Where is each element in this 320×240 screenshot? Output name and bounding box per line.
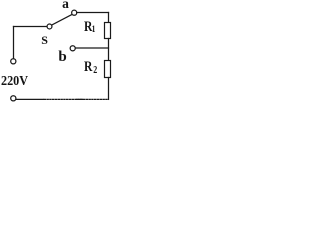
- label R1: [84, 20, 95, 36]
- wire top horizontal to right: [77, 12, 109, 14]
- label S: [41, 34, 48, 46]
- wire left vertical: [13, 27, 15, 59]
- label 220V: [1, 75, 28, 89]
- wire node b branch horizontal: [75, 47, 108, 49]
- node b circle: [70, 46, 75, 51]
- wire top-left horizontal: [14, 26, 48, 28]
- wire R1 to R2: [108, 39, 110, 61]
- resistor R2 body: [105, 61, 111, 78]
- resistor R1 body: [105, 23, 111, 39]
- wire R2 down to bottom line: [108, 78, 110, 100]
- switch contact node a: [72, 10, 77, 15]
- wire bottom solid segment: [16, 98, 43, 100]
- label b: [58, 50, 66, 65]
- label a: [62, 0, 69, 10]
- wire bottom long dash: [77, 98, 83, 100]
- switch S blade: [52, 14, 72, 25]
- terminal node top (220V upper): [11, 59, 16, 64]
- terminal node bottom (220V lower): [11, 96, 16, 101]
- switch S pivot circle: [47, 24, 52, 29]
- wire right vertical into R1: [108, 13, 110, 23]
- wire bottom dashed segment: [44, 98, 108, 100]
- label R2: [84, 60, 97, 76]
